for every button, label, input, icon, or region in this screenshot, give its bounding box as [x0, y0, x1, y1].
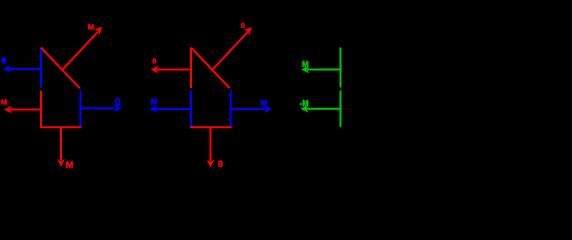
arrow M up-right (red) — [62, 23, 103, 70]
arrow M left (red) — [1, 98, 41, 114]
svg-text:0: 0 — [152, 57, 156, 66]
arrow flux left (blue) — [1, 57, 41, 73]
svg-text:M: M — [151, 98, 158, 107]
wire: lower-left vertical (red) — [40, 91, 42, 129]
arrow 0 down (red) — [207, 128, 224, 169]
arrow M left (blue) — [150, 98, 192, 113]
wire: lower vertical (green) — [340, 91, 342, 127]
svg-text:-M: -M — [300, 99, 310, 108]
arrow omega right (blue) — [80, 98, 122, 112]
wire: lower-right vertical (blue) — [80, 90, 82, 128]
svg-text:0: 0 — [218, 159, 223, 169]
arrow M left (green) — [301, 60, 341, 74]
arrow M right (blue) — [231, 99, 272, 113]
arrow 0 left (red) — [151, 57, 192, 74]
wire: diagonal (red) — [191, 48, 230, 89]
arrow M down (red) — [57, 128, 73, 170]
wire: lower-left vertical (blue) — [190, 91, 192, 129]
svg-text:M: M — [1, 98, 7, 107]
wire: bottom horizontal (red) — [40, 126, 81, 128]
svg-text:M: M — [66, 160, 74, 170]
wire: upper-left vertical (blue) — [40, 48, 42, 89]
wire: diagonal (red) — [41, 48, 80, 89]
wire: upper-left vertical (red) — [190, 48, 192, 89]
svg-text:M: M — [261, 99, 268, 108]
wire: bottom horizontal (red) — [190, 126, 232, 128]
svg-text:M: M — [88, 23, 94, 32]
wire: upper vertical (green) — [340, 47, 342, 87]
svg-text:0: 0 — [241, 21, 245, 30]
arrow -M left (green) — [300, 99, 341, 113]
label flux phi — [1, 58, 6, 64]
arrow 0 up-right (red) — [212, 21, 252, 70]
label omega — [116, 98, 120, 104]
wire: lower-right vertical (blue) — [230, 90, 232, 128]
svg-text:M: M — [302, 60, 309, 69]
